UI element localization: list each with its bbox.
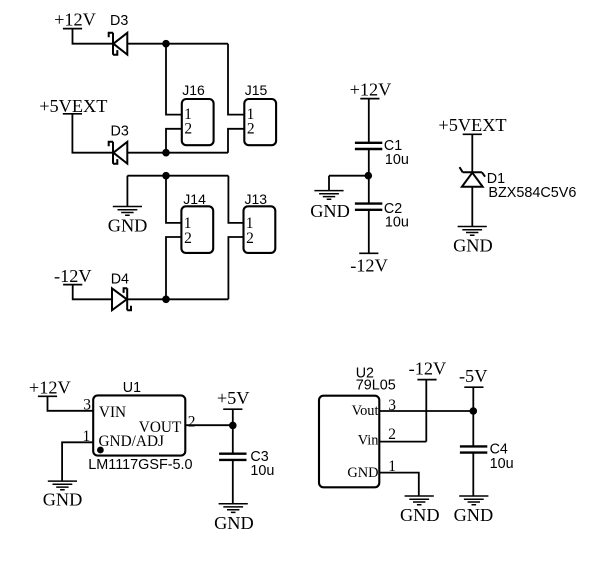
svg-text:+5VEXT: +5VEXT xyxy=(438,115,506,135)
svg-text:10u: 10u xyxy=(385,215,409,231)
svg-text:10u: 10u xyxy=(250,463,274,479)
svg-text:3: 3 xyxy=(83,397,91,414)
svg-text:2: 2 xyxy=(188,414,196,431)
svg-text:10u: 10u xyxy=(490,456,514,472)
svg-text:+12V: +12V xyxy=(54,10,96,30)
svg-text:LM1117GSF-5.0: LM1117GSF-5.0 xyxy=(88,457,192,473)
svg-text:-12V: -12V xyxy=(54,266,92,286)
svg-text:+5V: +5V xyxy=(217,388,250,408)
svg-text:U1: U1 xyxy=(123,380,141,396)
svg-text:1: 1 xyxy=(388,458,396,475)
svg-text:J15: J15 xyxy=(245,82,268,98)
svg-text:2: 2 xyxy=(184,230,192,247)
svg-text:VIN: VIN xyxy=(99,404,126,421)
svg-text:1: 1 xyxy=(82,428,90,445)
svg-text:3: 3 xyxy=(388,397,396,414)
svg-text:GND: GND xyxy=(400,505,440,525)
svg-text:79L05: 79L05 xyxy=(356,378,396,394)
svg-text:J13: J13 xyxy=(245,191,268,207)
svg-text:GND: GND xyxy=(310,201,350,221)
svg-text:-5V: -5V xyxy=(459,366,487,386)
svg-text:+5VEXT: +5VEXT xyxy=(39,96,107,116)
svg-text:C4: C4 xyxy=(490,442,508,458)
svg-text:Vout: Vout xyxy=(352,403,379,419)
svg-text:J16: J16 xyxy=(182,82,205,98)
svg-text:GND: GND xyxy=(454,505,494,525)
svg-text:J14: J14 xyxy=(183,191,206,207)
svg-text:D3: D3 xyxy=(111,124,129,140)
svg-text:GND: GND xyxy=(214,513,254,533)
svg-text:-12V: -12V xyxy=(350,256,388,276)
svg-text:10u: 10u xyxy=(385,152,409,168)
svg-text:GND: GND xyxy=(108,216,148,236)
svg-text:GND: GND xyxy=(453,235,493,255)
svg-text:-12V: -12V xyxy=(409,359,447,379)
svg-text:Vin: Vin xyxy=(358,433,379,449)
svg-text:2: 2 xyxy=(247,121,255,138)
svg-text:BZX584C5V6: BZX584C5V6 xyxy=(488,185,576,201)
svg-text:GND: GND xyxy=(43,490,83,510)
svg-text:2: 2 xyxy=(184,121,192,138)
svg-text:GND/ADJ: GND/ADJ xyxy=(99,433,164,450)
svg-text:2: 2 xyxy=(388,426,396,443)
svg-text:GND: GND xyxy=(347,465,378,481)
svg-text:+12V: +12V xyxy=(29,377,71,397)
svg-text:D4: D4 xyxy=(111,272,129,288)
svg-text:D3: D3 xyxy=(110,13,128,29)
svg-text:+12V: +12V xyxy=(350,80,392,100)
svg-text:2: 2 xyxy=(246,230,254,247)
